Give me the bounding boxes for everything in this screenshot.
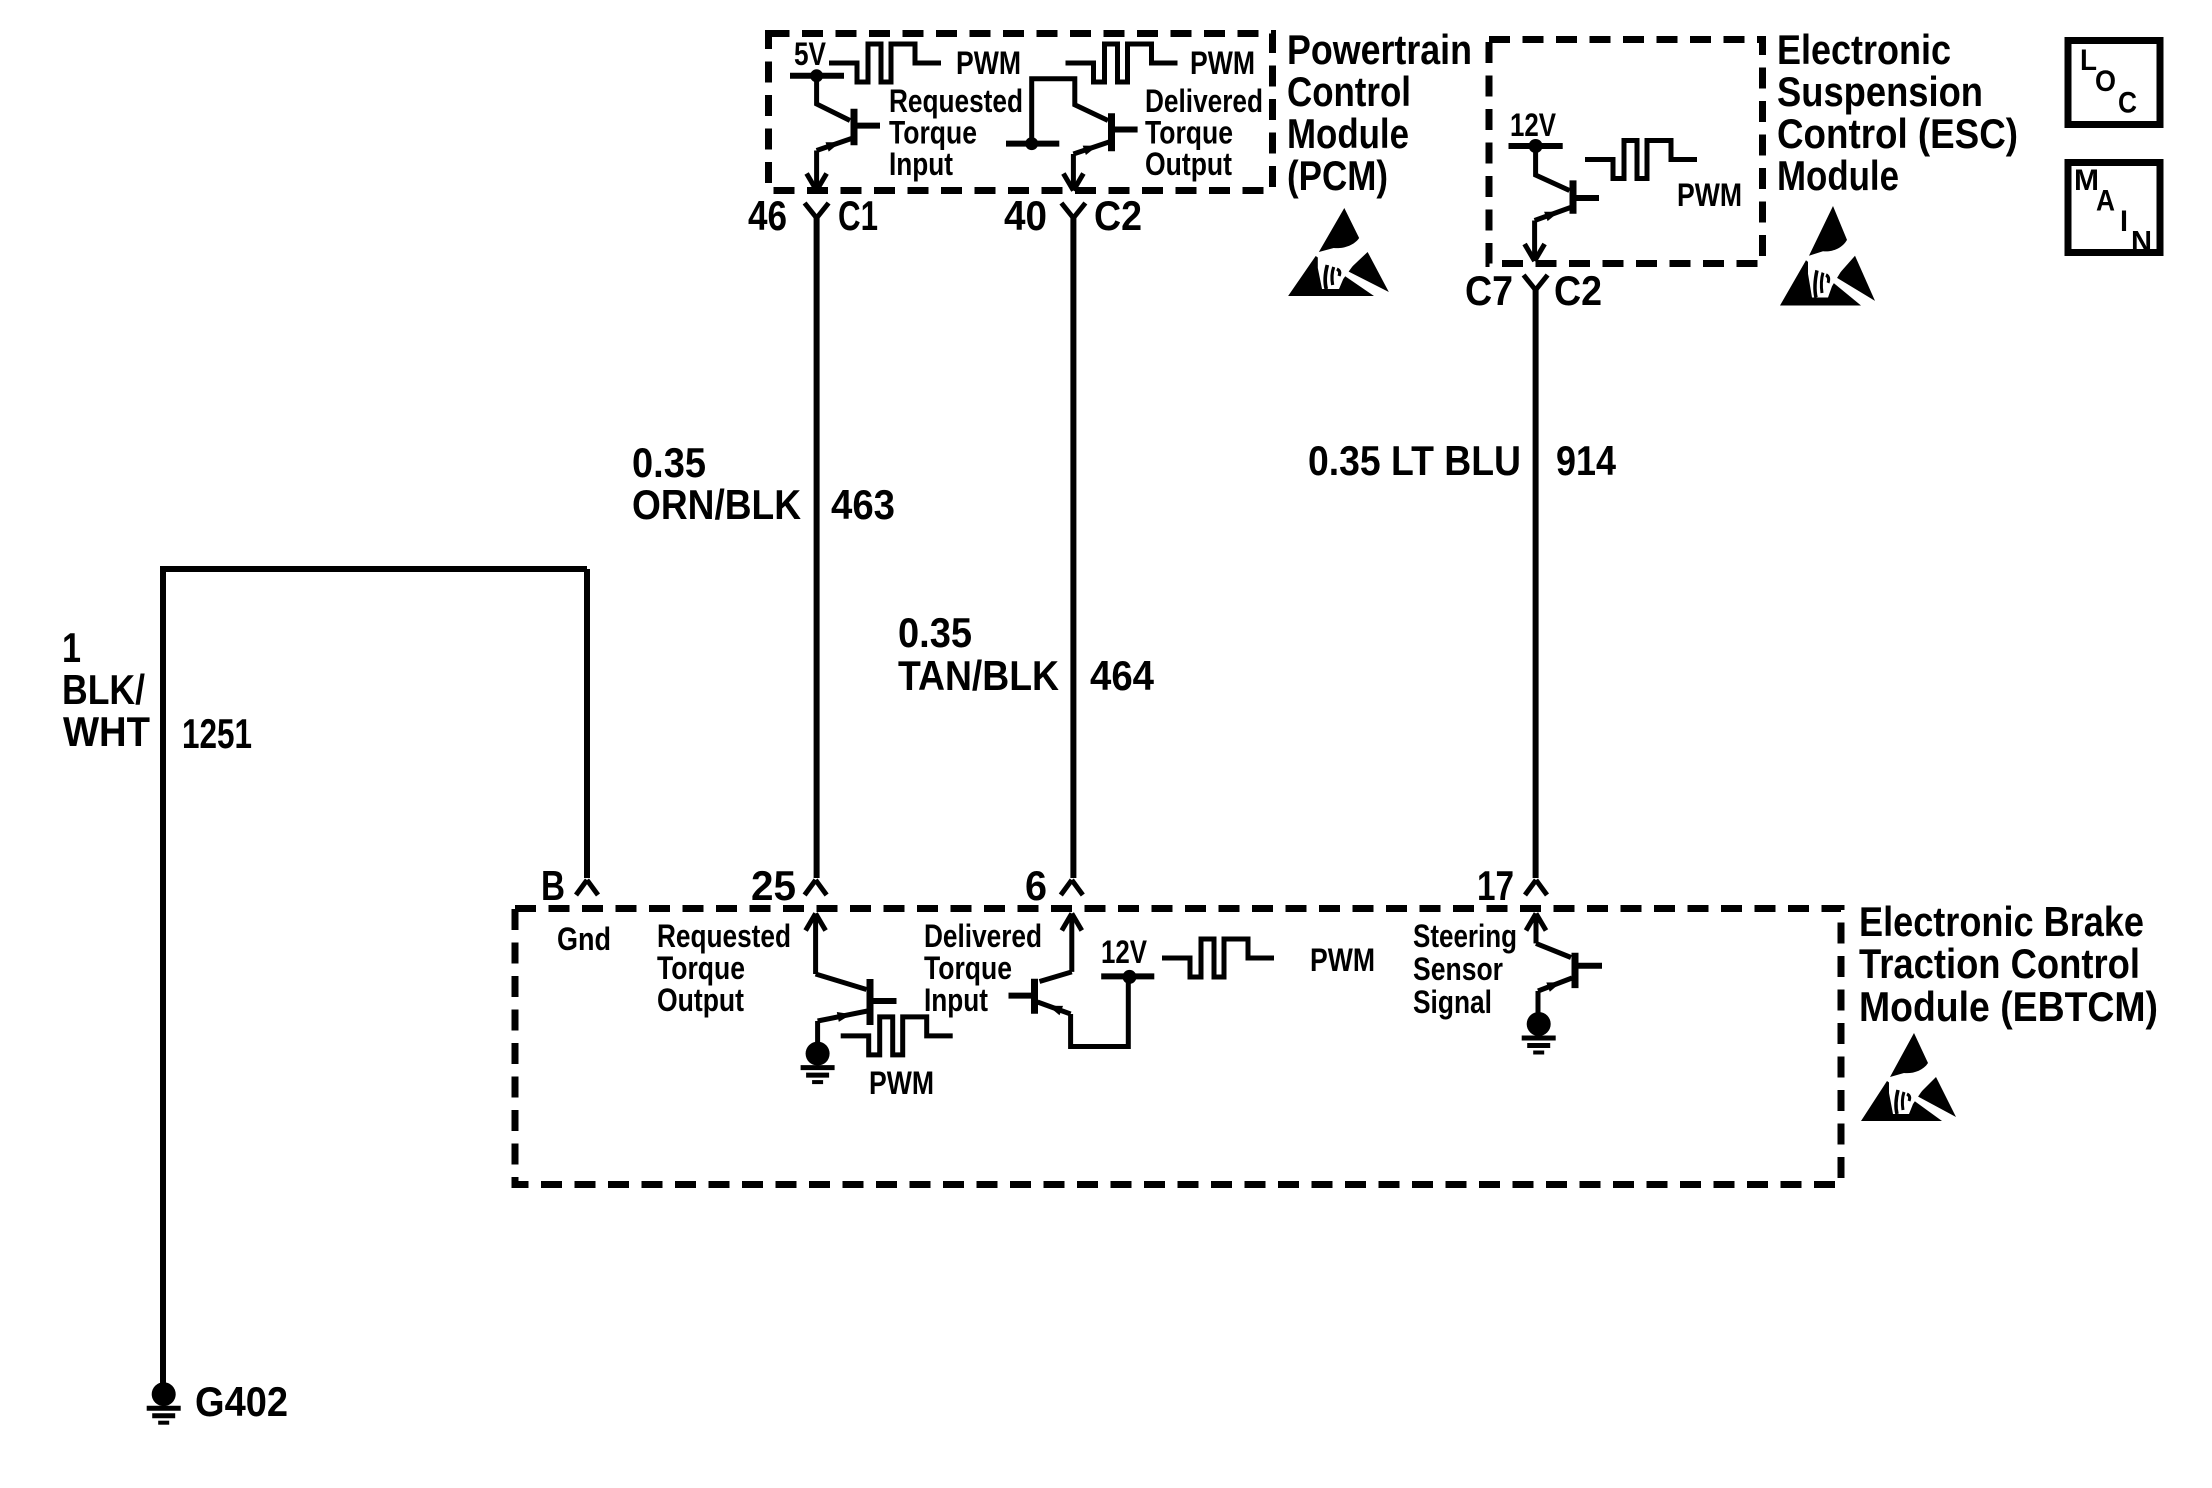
svg-text:O: O (2095, 65, 2116, 98)
svg-text:25: 25 (751, 862, 796, 909)
svg-text:914: 914 (1556, 437, 1617, 484)
svg-text:40: 40 (1004, 192, 1047, 239)
svg-text:1251: 1251 (182, 710, 252, 757)
svg-text:Control: Control (1287, 68, 1411, 115)
svg-text:C: C (2118, 87, 2137, 120)
svg-text:ORN/BLK: ORN/BLK (632, 481, 801, 528)
svg-text:C7: C7 (1465, 267, 1513, 314)
svg-text:Module: Module (1287, 110, 1409, 157)
svg-text:B: B (541, 862, 565, 909)
svg-text:I: I (2120, 205, 2128, 238)
svg-text:Torque: Torque (924, 950, 1012, 986)
svg-text:Torque: Torque (657, 950, 745, 986)
svg-text:46: 46 (748, 192, 787, 239)
svg-text:WHT: WHT (63, 708, 150, 755)
svg-text:Electronic: Electronic (1777, 26, 1951, 73)
svg-text:463: 463 (831, 481, 895, 528)
svg-text:5V: 5V (794, 36, 827, 72)
svg-text:Gnd: Gnd (557, 921, 611, 957)
svg-text:1: 1 (62, 624, 81, 671)
svg-text:PWM: PWM (956, 45, 1021, 81)
svg-text:Input: Input (924, 982, 988, 1018)
svg-text:N: N (2131, 226, 2152, 259)
svg-text:Output: Output (657, 982, 744, 1018)
svg-text:6: 6 (1025, 862, 1047, 909)
svg-text:Signal: Signal (1413, 984, 1492, 1020)
svg-text:Requested: Requested (657, 918, 791, 954)
svg-text:Electronic Brake: Electronic Brake (1859, 898, 2144, 945)
svg-text:Traction Control: Traction Control (1859, 940, 2140, 987)
svg-text:17: 17 (1477, 862, 1514, 909)
svg-text:Steering: Steering (1413, 918, 1517, 954)
svg-text:Control (ESC): Control (ESC) (1777, 110, 2018, 157)
svg-text:Module: Module (1777, 152, 1899, 199)
svg-text:464: 464 (1090, 652, 1155, 699)
svg-text:Sensor: Sensor (1413, 951, 1503, 987)
svg-text:G402: G402 (195, 1378, 288, 1425)
svg-text:Output: Output (1145, 146, 1232, 182)
svg-text:(PCM): (PCM) (1287, 152, 1388, 199)
svg-text:PWM: PWM (1190, 45, 1255, 81)
svg-text:12V: 12V (1510, 107, 1557, 143)
svg-text:0.35 LT BLU: 0.35 LT BLU (1308, 437, 1521, 484)
svg-text:TAN/BLK: TAN/BLK (898, 652, 1059, 699)
svg-text:Delivered: Delivered (924, 918, 1042, 954)
svg-text:C2: C2 (1554, 267, 1602, 314)
svg-text:Module (EBTCM): Module (EBTCM) (1859, 983, 2158, 1030)
svg-text:Input: Input (889, 146, 953, 182)
svg-text:PWM: PWM (1677, 177, 1742, 213)
svg-text:A: A (2096, 185, 2115, 218)
svg-text:0.35: 0.35 (632, 439, 706, 486)
svg-text:C2: C2 (1094, 192, 1142, 239)
svg-text:Suspension: Suspension (1777, 68, 1983, 115)
svg-text:PWM: PWM (1310, 942, 1375, 978)
svg-text:C1: C1 (838, 192, 878, 239)
svg-text:BLK/: BLK/ (62, 666, 145, 713)
svg-text:PWM: PWM (869, 1065, 934, 1101)
svg-text:Powertrain: Powertrain (1287, 26, 1472, 73)
svg-text:12V: 12V (1101, 934, 1148, 970)
svg-text:0.35: 0.35 (898, 609, 972, 656)
